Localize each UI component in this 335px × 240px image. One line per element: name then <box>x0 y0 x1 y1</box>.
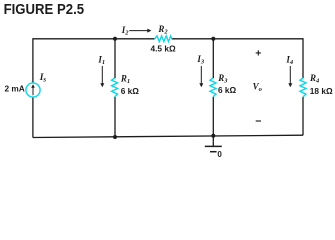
svg-text:18 kΩ: 18 kΩ <box>310 86 333 96</box>
current source Is circle <box>26 83 40 97</box>
wire R3 branch upper <box>212 39 214 78</box>
wire R3 branch lower <box>212 97 214 136</box>
wire R4 branch upper <box>302 38 304 78</box>
ground bar long <box>205 145 222 147</box>
current arrow I1 <box>100 66 104 87</box>
svg-text:4.5 kΩ: 4.5 kΩ <box>151 44 176 54</box>
svg-text:FIGURE P2.5: FIGURE P2.5 <box>4 2 85 18</box>
wire bottom <box>33 135 303 137</box>
current source arrow <box>31 84 35 95</box>
ground bar short <box>210 151 217 153</box>
resistor R1 zigzag <box>112 78 118 97</box>
resistor R3 zigzag <box>210 78 216 97</box>
node on bottom wire at R3 / ground <box>211 134 215 138</box>
node on top wire at R3 <box>211 37 215 41</box>
svg-text:2 mA: 2 mA <box>5 83 25 93</box>
node on top wire at R1 <box>113 37 117 41</box>
node on bottom wire at R1 <box>113 135 117 139</box>
svg-text:−: − <box>255 116 261 128</box>
wire R1 branch lower <box>114 97 116 137</box>
svg-text:+: + <box>255 48 261 60</box>
wire R4 branch lower <box>302 97 304 135</box>
ground stub wire <box>212 136 214 147</box>
svg-text:6 kΩ: 6 kΩ <box>218 85 237 95</box>
wire left vertical upper <box>32 38 34 82</box>
resistor R4 zigzag <box>300 78 306 97</box>
wire top-right segment <box>172 38 303 40</box>
current arrow I4 <box>288 66 292 87</box>
svg-text:6 kΩ: 6 kΩ <box>121 86 140 96</box>
current arrow I2 <box>129 29 151 33</box>
current arrow I3 <box>199 66 203 87</box>
wire top-left segment <box>33 38 155 40</box>
svg-text:0: 0 <box>217 150 222 159</box>
wire R1 branch upper <box>114 39 116 78</box>
wire left vertical lower <box>32 97 34 137</box>
resistor R2 zigzag <box>155 36 172 42</box>
